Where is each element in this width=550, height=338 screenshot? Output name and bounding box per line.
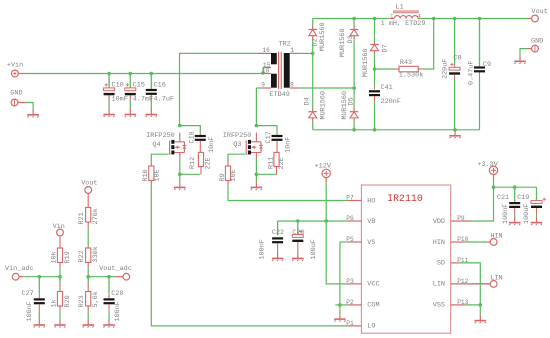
svg-text:1: 1 (290, 47, 294, 54)
supply +3.3V (477, 161, 498, 179)
svg-text:COM: COM (367, 302, 379, 310)
svg-text:IRFP250: IRFP250 (146, 132, 175, 140)
wire Q3 gate to R9 (228, 154, 245, 161)
junction Q3 drain (255, 124, 259, 128)
wire R9 to HO (228, 185, 348, 201)
svg-text:LIN: LIN (490, 275, 502, 283)
wire Q3 source to ground (255, 174, 257, 181)
wire GND pin to ground (520, 49, 527, 56)
junction Q4 drain (178, 124, 182, 128)
resistor R23 (78, 277, 100, 319)
pin HIN (466, 233, 503, 246)
wire Q4 source (179, 159, 181, 175)
svg-text:C19: C19 (517, 194, 529, 202)
pin Vout (sense) (81, 180, 97, 194)
wire TR2 pin9 (256, 87, 262, 89)
pin Vout_adc (99, 265, 132, 280)
wire pin1 node to D4 (312, 53, 314, 108)
svg-text:Vin_adc: Vin_adc (5, 265, 34, 273)
svg-text:SD: SD (437, 260, 445, 268)
junction Q3 source (255, 173, 259, 177)
svg-text:22E: 22E (204, 157, 212, 169)
resistor R10 (142, 162, 162, 185)
resistor R21 (78, 193, 100, 227)
transistor Q4 (IRFP250) (146, 132, 186, 159)
svg-text:10E: 10E (230, 169, 238, 181)
wire C8 to ground rail (454, 80, 456, 130)
svg-text:R21: R21 (78, 212, 86, 224)
capacitor C20 (292, 221, 318, 260)
resistor R19 (50, 236, 72, 267)
wire Q4 gate to R10 (151, 154, 168, 161)
capacitor C15 (125, 74, 153, 109)
junction top rail/D7 (373, 17, 377, 21)
pin Vout (527, 8, 547, 22)
svg-text:P12: P12 (457, 278, 468, 285)
svg-text:VSS: VSS (433, 302, 445, 310)
wire C41 to bottom rail (374, 101, 376, 130)
svg-text:1: 1 (390, 13, 394, 20)
diode D3 (MUR1560) (339, 26, 358, 57)
ground (103, 319, 115, 328)
svg-text:P1: P1 (346, 320, 354, 327)
capacitor C18 (188, 131, 216, 153)
svg-text:C18: C18 (188, 131, 196, 143)
svg-text:MUR1560: MUR1560 (319, 22, 327, 51)
diode D2 (MUR1560) (309, 22, 327, 51)
svg-text:R12: R12 (189, 157, 197, 169)
svg-text:Vout: Vout (81, 180, 97, 188)
capacitor C10 (104, 74, 128, 109)
svg-text:10nF: 10nF (208, 137, 216, 153)
ground (509, 217, 521, 226)
junction Q4 source (178, 173, 182, 177)
capacitor C8 (442, 19, 462, 81)
svg-text:L1: L1 (396, 3, 404, 11)
svg-text:9: 9 (261, 82, 265, 89)
wire VS to COM (339, 242, 341, 305)
ground (54, 319, 66, 328)
wire R21 to R22 (87, 227, 89, 246)
svg-text:R22: R22 (78, 250, 86, 262)
junction rail/C16 (150, 72, 154, 76)
svg-text:IR2110: IR2110 (387, 193, 423, 204)
capacitor C9 (468, 19, 491, 86)
pin Vin (53, 223, 65, 236)
svg-text:R9: R9 (219, 173, 227, 181)
resistor R9 (219, 162, 238, 185)
svg-text:HIN: HIN (490, 233, 502, 241)
svg-text:220nF: 220nF (381, 98, 401, 106)
junction rail/C15 (129, 72, 133, 76)
wire R22 to Vout_adc node (87, 267, 89, 277)
junction SD/VSS (479, 303, 483, 307)
diode D7 (MUR1560) (362, 41, 390, 77)
capacitor C27 (22, 277, 45, 322)
svg-text:D5: D5 (347, 97, 355, 105)
ground (272, 252, 284, 261)
svg-text:4.7mF: 4.7mF (133, 96, 153, 104)
wire D3 to pin8 node (353, 39, 355, 88)
ground (449, 130, 461, 139)
svg-text:TR2: TR2 (279, 40, 291, 48)
wire node to C41 (374, 69, 376, 87)
wire TR2 pin1 to bridge (299, 52, 313, 54)
junction bottom rail/D5 (352, 128, 356, 132)
wire VB row (278, 220, 348, 222)
wire bridge top rail (313, 18, 390, 20)
svg-text:Vout_adc: Vout_adc (99, 265, 132, 273)
junction caps row/C21 (513, 185, 517, 189)
wire Q3 source to R11 (256, 173, 277, 175)
wire D7 top (374, 19, 376, 42)
wire COM ground drop (339, 305, 341, 313)
wire bridge bottom rail (313, 129, 480, 131)
junction bottom rail/C8/ground (453, 128, 457, 132)
junction Vin_adc/C27 (38, 275, 42, 279)
capacitor C19 (517, 187, 546, 224)
wire Q4 source to R12 (180, 173, 201, 175)
junction output rail/C8 (453, 17, 457, 21)
junction rail/C10 (107, 72, 111, 76)
capacitor C17 (265, 131, 293, 153)
junction +3.3V/caps (492, 185, 496, 189)
junction bottom rail/C41 (373, 128, 377, 132)
svg-text:270k: 270k (92, 208, 100, 224)
svg-text:D7: D7 (382, 44, 390, 52)
svg-text:100nF: 100nF (114, 301, 122, 321)
inductor L1 (1 mH, ETD29) (381, 3, 426, 28)
wire TR2 pin9 to Q3 drain (255, 88, 257, 126)
wire D5 to bottom rail (353, 121, 355, 129)
pin +Vin (7, 61, 27, 77)
svg-text:C41: C41 (381, 84, 393, 92)
svg-text:C16: C16 (154, 82, 166, 90)
svg-text:C20: C20 (292, 229, 304, 237)
svg-text:+12V: +12V (315, 162, 332, 170)
svg-text:IRFP250: IRFP250 (223, 132, 252, 140)
junction R19/R20 (58, 275, 62, 279)
wire COM row (335, 304, 347, 306)
svg-text:C22: C22 (272, 229, 284, 237)
svg-text:10: 10 (262, 68, 270, 75)
wire R19 to Vin_adc node (59, 267, 61, 277)
wire Vin_adc (23, 276, 60, 278)
ground (103, 109, 115, 118)
svg-text:100nF: 100nF (502, 204, 510, 224)
svg-text:R23: R23 (78, 295, 86, 307)
pin GND (left) (10, 89, 26, 106)
svg-text:100uF: 100uF (310, 239, 318, 259)
wire R43 to output rail (422, 19, 433, 70)
svg-text:P7: P7 (346, 195, 354, 202)
resistor R43 (375, 59, 424, 79)
svg-text:Vin: Vin (53, 223, 65, 231)
svg-text:1k: 1k (50, 299, 58, 307)
pin Vin_adc (5, 265, 34, 280)
svg-text:GND: GND (531, 38, 543, 46)
svg-text:100uF: 100uF (523, 204, 531, 224)
svg-text:HIN: HIN (433, 239, 445, 247)
svg-text:VDD: VDD (433, 218, 445, 226)
wire SD to VSS (459, 263, 480, 305)
svg-text:10mF: 10mF (112, 96, 128, 104)
svg-text:Vout: Vout (531, 8, 547, 16)
svg-text:C9: C9 (483, 61, 491, 69)
svg-text:C15: C15 (133, 82, 145, 90)
wire pin8 node to D5 (353, 88, 355, 108)
svg-text:330k: 330k (92, 246, 100, 262)
svg-text:16: 16 (262, 47, 270, 54)
wire D2 to pin1 node (312, 39, 314, 53)
wire C9 to ground rail (479, 78, 481, 130)
ground (475, 315, 487, 324)
svg-text:+3.3V: +3.3V (477, 161, 498, 169)
svg-text:10nF: 10nF (285, 137, 293, 153)
wire pin15-pin10 tie (262, 68, 264, 74)
diode D5 (MUR1560) (341, 91, 358, 121)
capacitor C22 (258, 221, 284, 260)
svg-text:1.530k: 1.530k (399, 71, 423, 79)
transformer TR2 (ETD49) (258, 40, 299, 99)
ground (334, 313, 346, 322)
resistor R11 (268, 152, 286, 174)
transistor Q3 (IRFP250) (223, 132, 263, 159)
svg-text:ETD49: ETD49 (269, 91, 289, 99)
junction top rail/D3 (352, 17, 356, 21)
wire VSS row (465, 304, 480, 306)
capacitor C16 (146, 74, 174, 109)
ground (146, 109, 158, 118)
supply +12V (315, 162, 332, 182)
svg-text:R20: R20 (64, 295, 72, 307)
svg-text:D4: D4 (304, 97, 312, 105)
wire D2 top (312, 19, 314, 27)
svg-text:4.7uF: 4.7uF (154, 96, 174, 104)
junction D3/D5 (352, 86, 356, 90)
resistor R22 (78, 246, 100, 267)
svg-text:R11: R11 (268, 157, 276, 169)
svg-text:100nF: 100nF (26, 301, 34, 321)
svg-text:0.47uF: 0.47uF (468, 61, 476, 85)
wire output rail (420, 18, 527, 20)
wire D7 to R43 node (374, 54, 376, 69)
svg-text:C28: C28 (111, 290, 123, 298)
svg-text:MUR1560: MUR1560 (362, 48, 370, 77)
junction R22/R23 (86, 275, 90, 279)
op-amp/driver IC U1 IR2110 (346, 185, 490, 333)
wire TR2 pin8 to bridge (299, 87, 354, 89)
resistor R12 (189, 152, 212, 174)
svg-text:C27: C27 (22, 290, 34, 298)
capacitor C28 (104, 277, 124, 322)
wire +Vin rail (27, 73, 263, 75)
pin GND (right) (527, 38, 543, 52)
svg-text:100nF: 100nF (258, 239, 266, 259)
svg-text:220uF: 220uF (442, 59, 450, 79)
svg-text:10E: 10E (154, 169, 162, 181)
ground (174, 181, 186, 190)
svg-text:LIN: LIN (433, 281, 445, 289)
junction +12V/VB (324, 219, 328, 223)
svg-text:C10: C10 (112, 82, 124, 90)
capacitor C21 (497, 187, 520, 224)
ground (34, 319, 46, 328)
svg-text:HO: HO (367, 197, 375, 205)
wire Q3 drain to C17 (256, 126, 277, 133)
wire D3 top (353, 19, 355, 27)
junction TR2 centre tap (261, 71, 265, 75)
ground (531, 217, 543, 226)
pin LIN (472, 275, 503, 288)
svg-text:Q4: Q4 (152, 141, 160, 149)
resistor R20 (50, 277, 72, 319)
svg-text:GND: GND (10, 89, 22, 97)
wire +12V to VCC (326, 182, 347, 284)
svg-text:R10: R10 (142, 169, 150, 181)
junction VS/COM (338, 303, 342, 307)
svg-text:MUR1560: MUR1560 (319, 91, 327, 120)
svg-text:1 mH, ETD29: 1 mH, ETD29 (381, 20, 426, 28)
junction D7/R43/C41 (373, 67, 377, 71)
wire TR2 pin16 to Q4 drain (180, 53, 258, 125)
svg-text:VCC: VCC (367, 281, 379, 289)
svg-text:VS: VS (367, 239, 375, 247)
ground (82, 319, 94, 328)
wire Q4 drain to C18 (180, 126, 201, 133)
svg-text:R43: R43 (400, 59, 412, 67)
svg-text:VB: VB (367, 218, 375, 226)
wire D4 to bottom rail (312, 121, 314, 129)
svg-text:C17: C17 (265, 131, 273, 143)
junction Vout_adc/C28 (107, 275, 111, 279)
svg-text:Q3: Q3 (233, 141, 241, 149)
junction D2/D4 (311, 52, 315, 56)
svg-text:C21: C21 (497, 194, 509, 202)
ground (292, 252, 304, 261)
svg-text:R19: R19 (64, 251, 72, 263)
svg-text:10k: 10k (50, 251, 58, 263)
wire Q4 source to ground (179, 174, 181, 181)
svg-text:22E: 22E (278, 157, 286, 169)
svg-text:+Vin: +Vin (7, 61, 23, 69)
svg-text:C8: C8 (453, 55, 461, 63)
junction output rail/C9 (478, 17, 482, 21)
wire R10 to LO (151, 185, 347, 326)
ground (27, 109, 39, 118)
ground (514, 55, 526, 64)
diode D4 (MUR1560) (304, 91, 328, 121)
wire VS stub (340, 241, 348, 243)
junction output rail/R43 (432, 17, 436, 21)
wire Q3 source (255, 159, 257, 175)
wire +3.3V caps row (494, 186, 537, 188)
svg-text:LO: LO (367, 323, 375, 331)
wire +3.3V to VDD (472, 179, 494, 221)
svg-text:8: 8 (290, 82, 294, 89)
capacitor C41 (369, 84, 401, 106)
ground (251, 181, 263, 190)
junction VB/C20 (296, 219, 300, 223)
wire Vout_adc (88, 276, 116, 278)
wire GND pin to ground (26, 103, 33, 109)
svg-text:P9: P9 (457, 215, 465, 222)
svg-text:5,6k: 5,6k (92, 291, 100, 307)
wire VSS ground drop (479, 305, 481, 315)
ground (125, 109, 137, 118)
